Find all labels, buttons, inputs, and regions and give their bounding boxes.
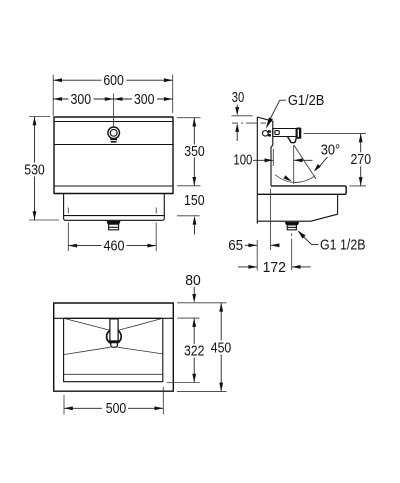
svg-text:322: 322	[184, 344, 205, 360]
svg-text:350: 350	[184, 144, 205, 160]
svg-text:100: 100	[233, 153, 252, 169]
svg-text:600: 600	[103, 73, 124, 89]
svg-text:530: 530	[24, 163, 45, 179]
svg-text:500: 500	[106, 401, 127, 417]
svg-text:270: 270	[351, 152, 372, 168]
svg-text:172: 172	[263, 260, 286, 276]
svg-text:150: 150	[184, 193, 205, 209]
svg-text:80: 80	[185, 273, 201, 289]
svg-text:460: 460	[104, 239, 125, 255]
svg-text:300: 300	[71, 92, 92, 108]
svg-text:65: 65	[228, 238, 243, 254]
svg-text:300: 300	[134, 92, 155, 108]
svg-text:G1/2B: G1/2B	[288, 93, 325, 109]
svg-text:450: 450	[211, 341, 232, 357]
svg-text:G1 1/2B: G1 1/2B	[320, 237, 366, 253]
svg-text:30°: 30°	[321, 143, 341, 159]
svg-text:30: 30	[232, 90, 245, 106]
